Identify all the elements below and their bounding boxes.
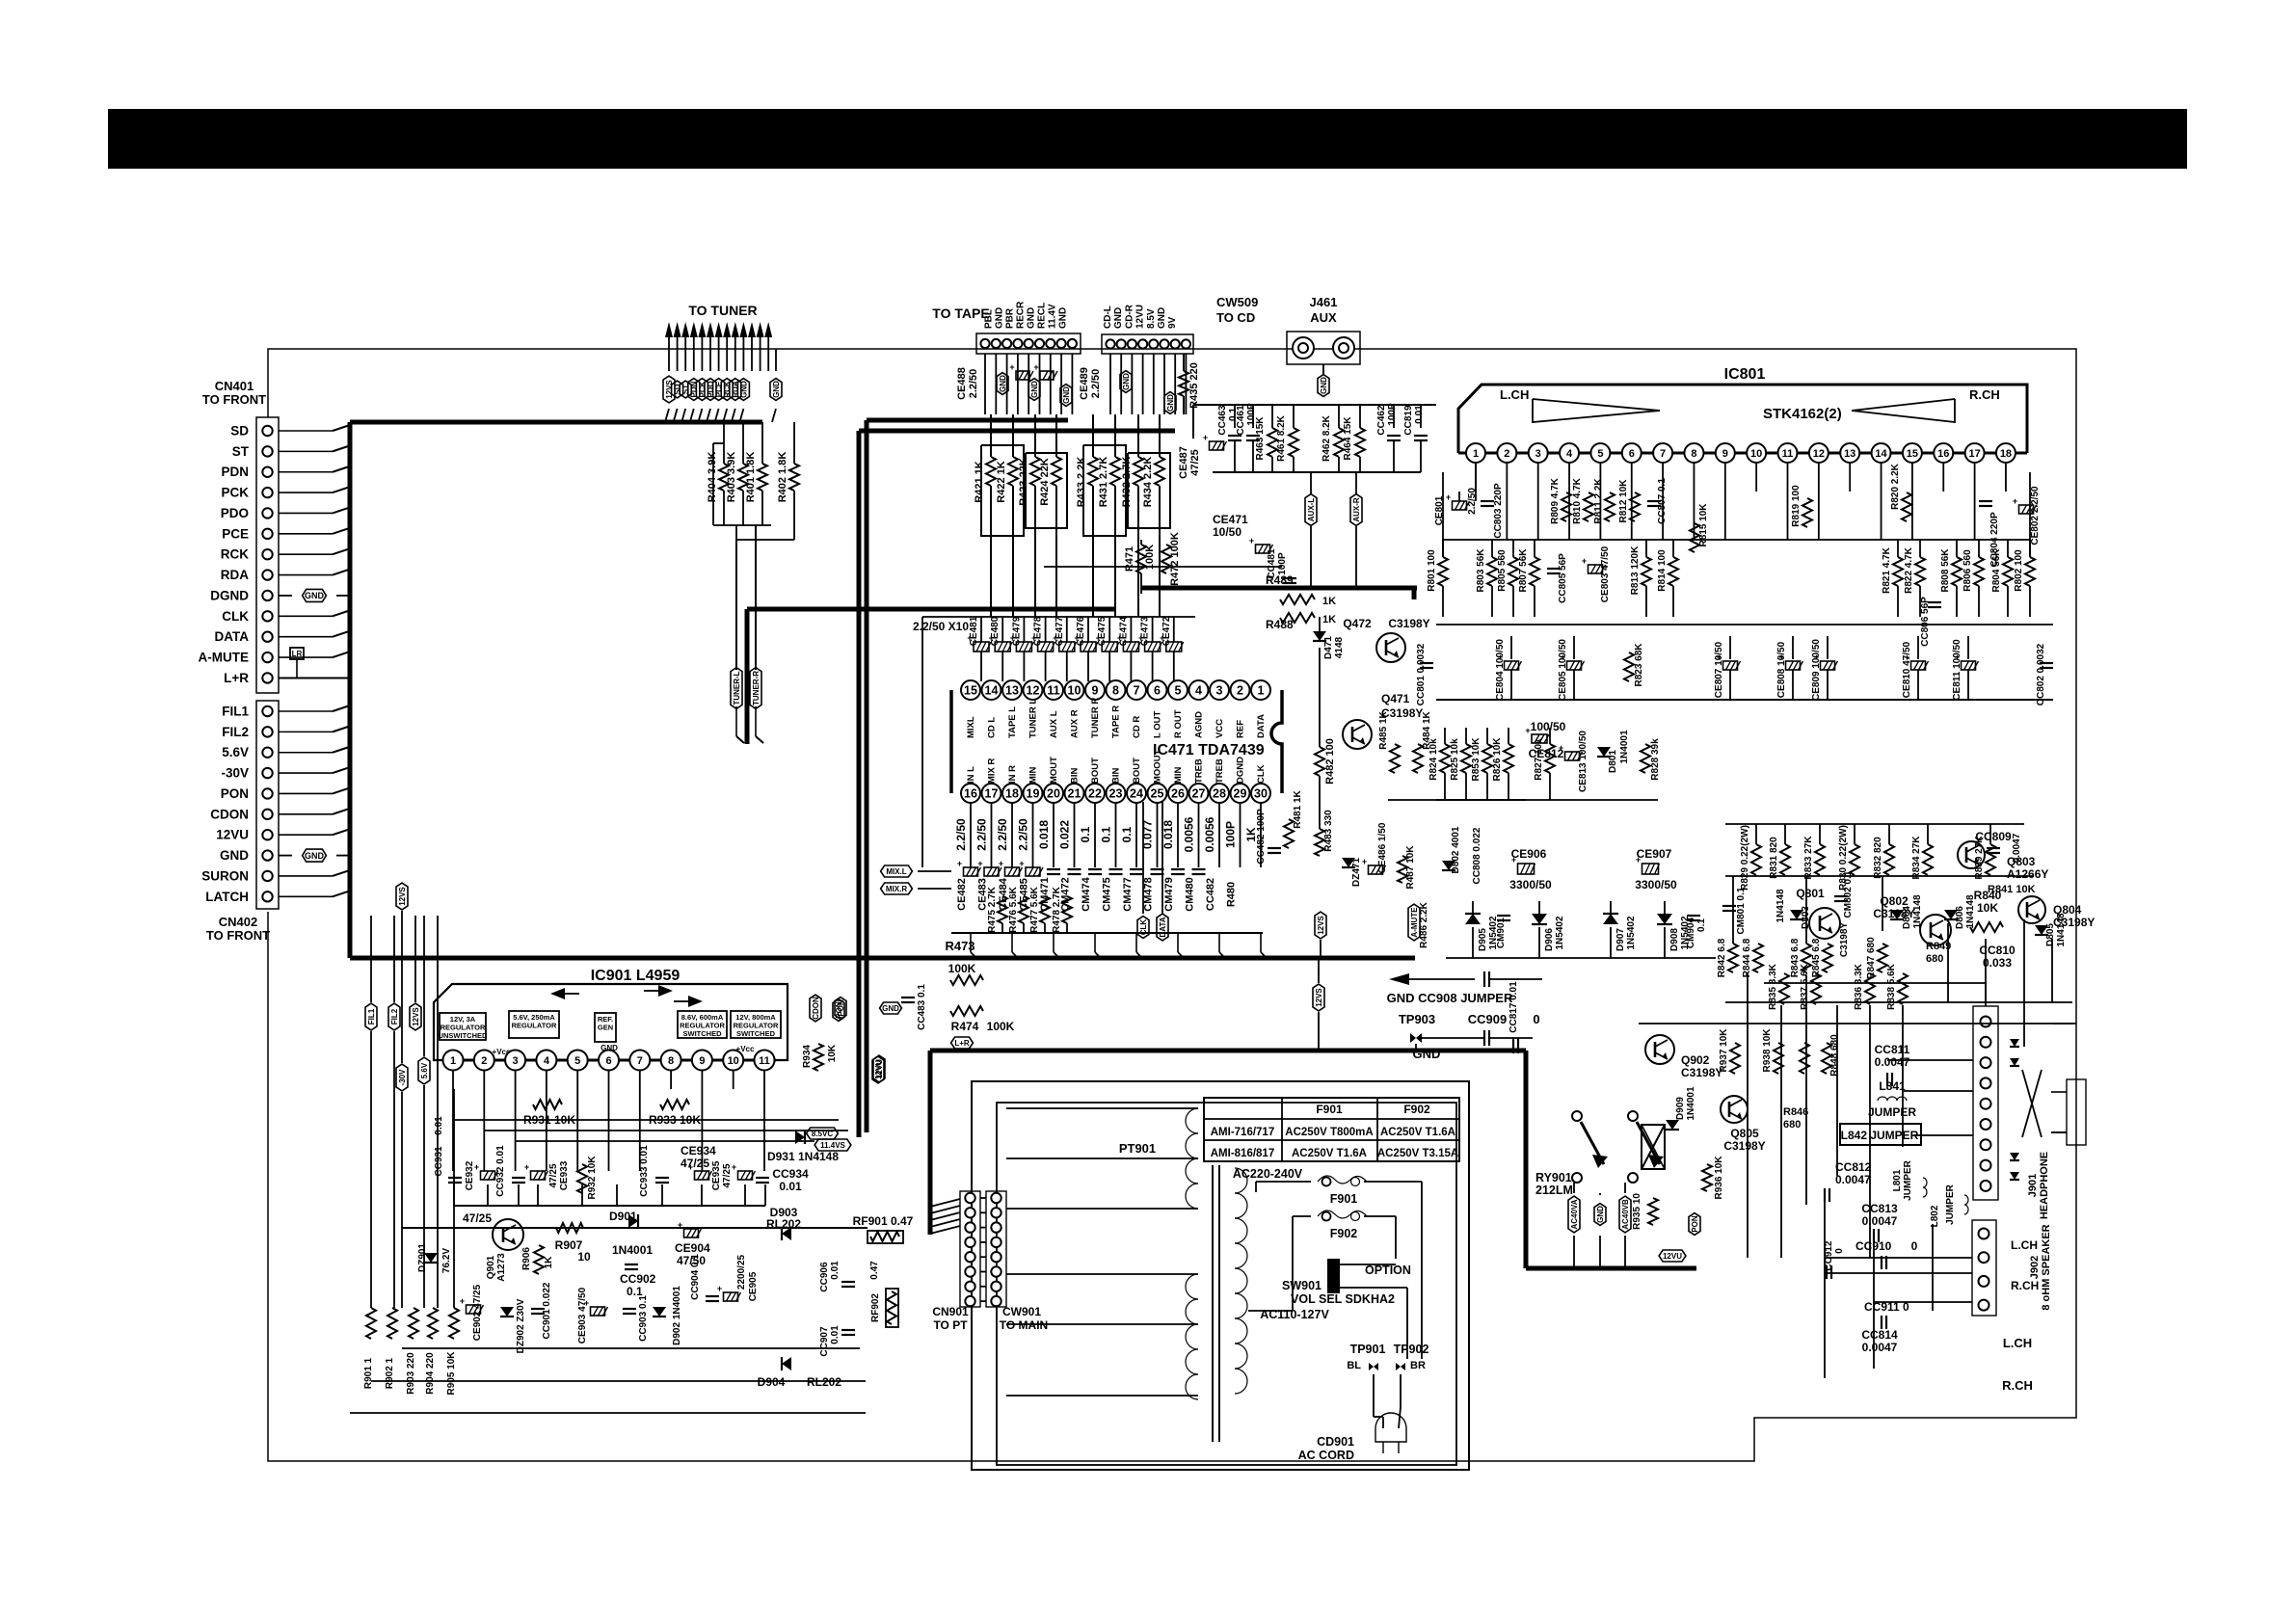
- resistor R825 10k: [1465, 728, 1467, 744]
- pin of CN901: [965, 1222, 974, 1232]
- wire column pin30: [1260, 802, 1262, 867]
- resistor R802 100: [2029, 540, 2031, 557]
- svg-text:FIL2: FIL2: [222, 725, 249, 739]
- resistor R821 4.7K: [1897, 540, 1899, 557]
- resistor R819 100: [1802, 498, 1812, 527]
- svg-text:CE807 10/50: CE807 10/50: [1714, 641, 1724, 698]
- resistor R834 27K: [1927, 824, 1929, 844]
- relay switch blade a: [1572, 1111, 1582, 1121]
- svg-text:A-MUTE: A-MUTE: [1410, 907, 1419, 938]
- svg-text:R831 820: R831 820: [1769, 837, 1779, 879]
- svg-text:GND: GND: [1320, 377, 1328, 394]
- pin of J901: [1981, 1181, 1991, 1191]
- net label AUX-L: [1310, 472, 1312, 493]
- svg-text:CE903 47/50: CE903 47/50: [577, 1287, 588, 1344]
- svg-text:PBR: PBR: [1005, 307, 1016, 329]
- pin 8 of IC901: [661, 1051, 681, 1071]
- resistor R822 4.7K: [1919, 540, 1921, 557]
- resistor R827 10k: [1549, 728, 1551, 744]
- resistor R938 10K: [1774, 1043, 1783, 1074]
- resistor R478 2.7K: [1062, 896, 1072, 923]
- capacitor CM symbol: [1047, 868, 1060, 870]
- svg-text:C3198Y: C3198Y: [1681, 1066, 1722, 1079]
- pin 17 of IC801: [1965, 443, 1985, 463]
- svg-text:R936 10K: R936 10K: [1714, 1156, 1724, 1200]
- svg-text:SWITCHED: SWITCHED: [736, 1029, 776, 1038]
- svg-text:R825 10k: R825 10k: [1450, 738, 1460, 781]
- pin 7 of IC471: [1127, 680, 1146, 700]
- svg-text:AMI-716/717: AMI-716/717: [1211, 1127, 1274, 1138]
- svg-text:CC482 100P: CC482 100P: [1256, 809, 1267, 865]
- resistor R488 1K: [1280, 613, 1315, 623]
- net label DATA: [1161, 802, 1163, 914]
- svg-text:D907: D907: [1615, 928, 1626, 951]
- svg-text:+: +: [524, 1162, 529, 1172]
- svg-text:CC909: CC909: [1468, 1012, 1507, 1026]
- resistor R461 8.2K: [1293, 405, 1295, 428]
- svg-text:+: +: [688, 1162, 693, 1172]
- net label FIL1: [365, 1003, 377, 1030]
- svg-text:10/50: 10/50: [1213, 525, 1241, 539]
- svg-text:R903 220: R903 220: [406, 1352, 416, 1395]
- wire bottom rail c: [350, 1412, 866, 1414]
- net label RCK (to tuner): [721, 379, 733, 401]
- net label MIX.R: [881, 883, 913, 894]
- pin 1 of IC901: [443, 1051, 464, 1071]
- svg-text:100P: 100P: [1277, 552, 1288, 575]
- pin of cd connector: [1182, 339, 1190, 348]
- net label 12VU (right): [872, 1056, 884, 1083]
- net label GND (tuner right): [775, 349, 777, 371]
- svg-text:R905 10K: R905 10K: [446, 1351, 457, 1396]
- svg-text:R807 56K: R807 56K: [1518, 548, 1529, 593]
- svg-text:AMI-816/817: AMI-816/817: [1211, 1148, 1274, 1159]
- svg-text:CE812: CE812: [1529, 747, 1564, 760]
- wire column pin16: [970, 802, 972, 867]
- svg-text:D909: D909: [1675, 1097, 1686, 1120]
- op-amp triangle R.CH: [1852, 399, 1955, 422]
- svg-text:0.0056: 0.0056: [1183, 816, 1196, 852]
- svg-text:GND: GND: [220, 848, 249, 863]
- svg-text:IC901 L4959: IC901 L4959: [591, 968, 681, 984]
- net label 8.5VC: [807, 1128, 839, 1139]
- svg-text:R487 10K: R487 10K: [1405, 845, 1416, 890]
- svg-text:CC811: CC811: [1875, 1043, 1910, 1056]
- wire column pin23: [1115, 802, 1117, 867]
- pin 3 of IC901: [505, 1051, 525, 1071]
- svg-text:CLK: CLK: [1256, 764, 1267, 784]
- wire IC801 left col: [1442, 472, 1444, 557]
- svg-text:R489: R489: [1266, 573, 1294, 587]
- resistor R403 3.9K: [742, 422, 744, 464]
- svg-text:C3198Y: C3198Y: [1839, 922, 1850, 957]
- svg-text:PDO: PDO: [221, 506, 249, 520]
- wire RDA to bus: [279, 574, 333, 576]
- svg-text:R848 680: R848 680: [1829, 1034, 1840, 1077]
- svg-text:1N5402: 1N5402: [1626, 916, 1637, 949]
- wire mid rail: [1044, 566, 1282, 568]
- resistor R830 0.22(2W): [1854, 824, 1855, 844]
- svg-text:1K: 1K: [1322, 596, 1336, 607]
- pin of J901: [1981, 1017, 1991, 1027]
- svg-text:IC801: IC801: [1724, 366, 1766, 383]
- net label PDO (to tuner): [705, 379, 716, 401]
- svg-text:CM479: CM479: [1163, 877, 1175, 911]
- svg-text:OPTION: OPTION: [1365, 1264, 1411, 1277]
- svg-text:R847 680: R847 680: [1866, 937, 1877, 979]
- pin 16 of IC471: [961, 784, 980, 803]
- svg-text:R464 15K: R464 15K: [1343, 416, 1353, 461]
- diode D805 1N4148: [2035, 925, 2048, 935]
- wire column pin24: [1135, 802, 1137, 867]
- pin of CW901: [991, 1208, 1001, 1217]
- svg-text:R475 2.7K: R475 2.7K: [987, 886, 998, 933]
- wire PON to bus: [279, 792, 333, 794]
- pin 3 of IC801: [1529, 443, 1548, 463]
- svg-text:AC250V T800mA: AC250V T800mA: [1285, 1127, 1373, 1138]
- wire DATA to bus: [279, 636, 333, 638]
- pin 17 of IC471: [982, 784, 1001, 803]
- svg-text:11: 11: [759, 1055, 770, 1067]
- resistor R833 27K: [1819, 824, 1821, 844]
- svg-text:C3198Y: C3198Y: [1388, 617, 1429, 630]
- bus wire horizontal upper a: [867, 418, 1068, 423]
- svg-text:R814 100: R814 100: [1657, 549, 1668, 592]
- svg-text:1: 1: [1473, 448, 1479, 460]
- capacitor CC463 0.1: [1234, 405, 1236, 428]
- table fuse ratings: [1204, 1098, 1459, 1161]
- wire CDON to bus: [279, 813, 333, 815]
- wire A-MUTE to bus: [279, 656, 333, 658]
- resistor R937 10K: [1730, 1043, 1740, 1074]
- svg-text:8: 8: [1112, 684, 1119, 698]
- pin of CW901: [991, 1296, 1001, 1306]
- svg-text:0.018: 0.018: [1037, 820, 1051, 849]
- pin 26 of IC471: [1168, 784, 1188, 803]
- bus wire vertical main: [348, 422, 353, 958]
- svg-text:8.5V: 8.5V: [1146, 308, 1157, 329]
- svg-text:Q804: Q804: [2053, 903, 2082, 917]
- svg-text:Q901: Q901: [486, 1255, 496, 1279]
- wire column pin29: [1240, 802, 1241, 867]
- svg-text:+: +: [1249, 536, 1254, 545]
- svg-text:+: +: [1009, 362, 1014, 372]
- wire 5.6V to bus: [279, 752, 333, 754]
- svg-text:CE810 47/50: CE810 47/50: [1902, 641, 1912, 698]
- svg-text:CC904 0.1: CC904 0.1: [690, 1254, 701, 1300]
- svg-text:TO FRONT: TO FRONT: [206, 928, 270, 943]
- bus wire horizontal mid b: [747, 607, 1115, 612]
- svg-text:TAPE L: TAPE L: [1007, 706, 1018, 738]
- svg-text:F901: F901: [1316, 1103, 1343, 1116]
- svg-text:16: 16: [964, 787, 977, 801]
- svg-text:J901: J901: [2027, 1174, 2039, 1197]
- svg-text:D908: D908: [1669, 928, 1680, 951]
- svg-text:CE808 10/50: CE808 10/50: [1776, 641, 1787, 698]
- svg-text:47/25: 47/25: [548, 1163, 559, 1187]
- svg-text:100P: 100P: [1387, 403, 1398, 426]
- pin RCK of CN401: [262, 549, 272, 559]
- pin 2 of IC471: [1231, 680, 1250, 700]
- svg-text:+: +: [1636, 855, 1641, 865]
- wire bottom rail IC471: [951, 932, 1263, 934]
- capacitor CC803 220P: [1481, 500, 1494, 502]
- svg-text:9: 9: [1092, 684, 1099, 698]
- svg-text:+: +: [1203, 433, 1208, 442]
- svg-text:R813 120K: R813 120K: [1630, 545, 1641, 595]
- svg-text:TUNER L: TUNER L: [1028, 699, 1039, 738]
- svg-text:Q471: Q471: [1381, 692, 1410, 705]
- svg-text:CC814: CC814: [1861, 1328, 1898, 1342]
- svg-text:0.1: 0.1: [1120, 826, 1134, 842]
- resistor R839 27K: [1989, 824, 1991, 844]
- svg-text:JUMPER: JUMPER: [1868, 1105, 1916, 1119]
- to-tuner arrow: [764, 322, 772, 337]
- transformer PT901 primary winding: [1186, 1108, 1198, 1133]
- svg-text:8 oHM SPEAKER: 8 oHM SPEAKER: [2041, 1224, 2052, 1310]
- pin A-MUTE of CN401: [262, 652, 272, 662]
- svg-text:CE935: CE935: [711, 1160, 722, 1190]
- svg-text:+: +: [957, 859, 962, 868]
- svg-text:D804: D804: [1902, 906, 1912, 929]
- svg-text:7: 7: [1134, 684, 1140, 698]
- pin of CW901: [991, 1266, 1001, 1276]
- svg-text:R.CH: R.CH: [2002, 1378, 2033, 1393]
- wire PCE to bus: [279, 533, 333, 535]
- svg-text:CE809 100/50: CE809 100/50: [1811, 639, 1822, 701]
- svg-text:3300/50: 3300/50: [1635, 878, 1677, 891]
- svg-text:CD R: CD R: [1132, 716, 1142, 738]
- svg-text:D904: D904: [758, 1375, 786, 1389]
- title banner bar: [108, 109, 2187, 169]
- svg-text:0.01: 0.01: [830, 1325, 841, 1344]
- resistor R842 6.8: [1728, 944, 1738, 972]
- pin of cd connector: [1171, 339, 1180, 348]
- svg-text:0.01: 0.01: [830, 1261, 841, 1280]
- resistor R845 6.8: [1823, 944, 1832, 972]
- pin 4 of IC801: [1560, 443, 1579, 463]
- svg-text:CN901: CN901: [932, 1305, 969, 1318]
- svg-text:CC901 0.022: CC901 0.022: [542, 1282, 552, 1339]
- connector CW901 TO MAIN: [986, 1191, 1006, 1307]
- svg-text:1N4001: 1N4001: [1686, 1086, 1696, 1120]
- fuse F902: [1293, 1215, 1311, 1217]
- to-tuner arrow: [748, 322, 756, 337]
- resistor R826 10K: [1508, 728, 1509, 744]
- wire column pin20: [1053, 802, 1055, 867]
- svg-text:8: 8: [1691, 448, 1696, 460]
- transistor Q804 C3198Y: [2018, 896, 2045, 923]
- svg-text:CC801 0.0032: CC801 0.0032: [1416, 643, 1427, 705]
- pin 3 of IC471: [1210, 680, 1229, 700]
- pin 7 of IC801: [1653, 443, 1672, 463]
- svg-text:AC250V T1.6A: AC250V T1.6A: [1380, 1127, 1455, 1138]
- svg-text:CC463: CC463: [1217, 405, 1228, 436]
- pin 2 of IC901: [474, 1051, 494, 1071]
- svg-text:CC819: CC819: [1403, 405, 1414, 436]
- capacitor CE904 47/50: [684, 1229, 699, 1237]
- capacitor CC934 0.01: [756, 1177, 769, 1179]
- svg-text:2.2/50: 2.2/50: [1017, 818, 1030, 851]
- resistor R903 220: [409, 1308, 418, 1339]
- svg-text:CC808 0.022: CC808 0.022: [1472, 827, 1482, 884]
- connector J902 8 OHM SPEAKER: [1972, 1220, 1996, 1316]
- resistor R463 15K: [1271, 405, 1273, 428]
- capacitor CM symbol: [1171, 868, 1185, 870]
- svg-text:CC809: CC809: [1975, 830, 2012, 843]
- svg-text:TREB: TREB: [1215, 758, 1225, 784]
- diode D803 1N4148: [1790, 910, 1803, 919]
- svg-text:CE471: CE471: [1213, 513, 1248, 526]
- svg-text:Q902: Q902: [1681, 1053, 1710, 1067]
- svg-text:R474: R474: [951, 1020, 979, 1033]
- capacitor CE482 symbol: [964, 867, 978, 876]
- svg-text:12VS: 12VS: [412, 1007, 420, 1026]
- svg-text:GND: GND: [882, 1004, 899, 1013]
- transistor Q805 C3198Y: [1721, 1096, 1748, 1123]
- svg-text:680: 680: [1783, 1119, 1801, 1131]
- wire CLK to bus: [279, 615, 333, 617]
- diode DZ471: [1342, 858, 1355, 867]
- capacitor CC806 56P: [1928, 601, 1941, 603]
- resistor R809 4.7K: [1562, 492, 1571, 521]
- capacitor CM symbol: [1130, 868, 1143, 870]
- svg-text:A1266Y: A1266Y: [2007, 867, 2048, 881]
- capacitor CC807 0.1: [1647, 500, 1661, 502]
- wire IC801 rail2: [1436, 624, 2053, 625]
- svg-text:CC810: CC810: [1979, 944, 2016, 957]
- svg-text:RECL: RECL: [1037, 303, 1048, 329]
- svg-text:L842 JUMPER: L842 JUMPER: [1841, 1129, 1919, 1142]
- pin of CN901: [965, 1193, 974, 1203]
- svg-text:L841: L841: [1879, 1079, 1906, 1093]
- svg-text:R841 10K: R841 10K: [1988, 884, 2036, 895]
- svg-text:R488: R488: [1266, 618, 1294, 631]
- svg-text:R476 5.6K: R476 5.6K: [1008, 886, 1019, 933]
- svg-text:7: 7: [637, 1055, 643, 1067]
- net label GND (CN402): [303, 849, 327, 862]
- svg-text:TO PT: TO PT: [933, 1318, 968, 1332]
- svg-text:CD-R: CD-R: [1124, 304, 1135, 329]
- svg-text:0: 0: [1533, 1012, 1539, 1026]
- svg-text:0.033: 0.033: [1983, 956, 2012, 970]
- wire PCK to bus: [279, 492, 333, 493]
- capacitor CC902 0.1: [625, 1264, 638, 1265]
- svg-text:BOUT: BOUT: [1090, 758, 1101, 784]
- svg-text:SWITCHED: SWITCHED: [683, 1029, 723, 1038]
- svg-text:0.0047: 0.0047: [1835, 1173, 1871, 1186]
- pin 7 of IC901: [629, 1051, 650, 1071]
- wire FIL2 to bus: [279, 731, 333, 732]
- diode D931 1N4148: [795, 1131, 805, 1144]
- svg-text:+: +: [1160, 633, 1164, 643]
- capacitor CE484 symbol: [1005, 867, 1020, 876]
- pin 21 of IC471: [1065, 784, 1084, 803]
- svg-text:CE803 47/50: CE803 47/50: [1600, 545, 1611, 602]
- pin of tape connector: [1035, 339, 1044, 348]
- pin 4 of IC901: [536, 1051, 556, 1071]
- wire column pin28: [1218, 802, 1220, 867]
- svg-text:1N4148: 1N4148: [1965, 894, 1976, 928]
- svg-text:GND: GND: [772, 381, 781, 398]
- svg-text:C3198Y: C3198Y: [2053, 916, 2095, 929]
- svg-text:CC803 220P: CC803 220P: [1493, 483, 1504, 539]
- svg-text:Q472: Q472: [1343, 617, 1372, 630]
- pin 12 of IC801: [1809, 443, 1829, 463]
- headphone jack symbol: [2067, 1079, 2086, 1145]
- svg-text:1N5402: 1N5402: [1555, 916, 1565, 949]
- svg-text:AUX-L: AUX-L: [1307, 498, 1316, 522]
- wire box R423 pair: [1026, 453, 1067, 528]
- pin of cd connector: [1160, 339, 1168, 348]
- resistor R402 1.8K: [793, 422, 795, 464]
- svg-text:R805 560: R805 560: [1497, 549, 1508, 592]
- svg-text:TUNER-L: TUNER-L: [733, 671, 741, 705]
- pin of CW901: [991, 1237, 1001, 1247]
- svg-text:11: 11: [1782, 448, 1794, 460]
- pin 27 of IC471: [1189, 784, 1209, 803]
- svg-text:IN L: IN L: [966, 766, 976, 784]
- to-tuner arrow: [665, 322, 673, 337]
- svg-text:Q805: Q805: [1730, 1127, 1759, 1140]
- svg-text:CE934: CE934: [681, 1144, 716, 1157]
- to-tuner arrow: [739, 322, 747, 337]
- wire PDN to bus: [279, 471, 333, 473]
- pin SURON of CN402: [262, 871, 272, 881]
- wire SD to bus: [279, 430, 333, 432]
- svg-text:CN402: CN402: [219, 915, 257, 929]
- pin of J901: [1981, 1057, 1991, 1068]
- resistor R931 10K: [533, 1100, 562, 1109]
- svg-text:R802 100: R802 100: [2014, 549, 2024, 592]
- pin of CW901: [991, 1282, 1001, 1291]
- svg-text:CC802 0.0032: CC802 0.0032: [2036, 643, 2046, 705]
- wire IC801 bottom rail: [1436, 699, 2053, 701]
- svg-text:4148: 4148: [1334, 636, 1345, 658]
- wire right frame drops: [2053, 1023, 2076, 1024]
- svg-text:RCK: RCK: [221, 547, 249, 562]
- svg-text:JUMPER: JUMPER: [1945, 1184, 1956, 1224]
- pin of J902: [1979, 1300, 1989, 1311]
- transistor Q902 C3198Y: [1645, 1035, 1674, 1064]
- svg-text:26: 26: [1171, 787, 1185, 801]
- pin 13 of IC471: [1002, 680, 1022, 700]
- resistor R487 10K: [1398, 856, 1407, 883]
- wire columns to bus: [970, 933, 972, 952]
- wire amp cluster rails: [1725, 823, 2024, 825]
- svg-text:18: 18: [2000, 448, 2012, 460]
- op-amp IC471 TDA7439 body: [949, 690, 953, 793]
- resistor R847 680: [1878, 944, 1887, 972]
- to-tuner arrow: [723, 322, 731, 337]
- pin of CN901: [965, 1282, 974, 1291]
- svg-text:RDA: RDA: [221, 568, 249, 582]
- svg-text:5: 5: [1175, 684, 1182, 698]
- pin PON of CN402: [262, 788, 272, 798]
- bus wire IC901 pins: [443, 1059, 776, 1062]
- svg-text:CN401: CN401: [215, 379, 254, 393]
- wire IC801 right col: [2029, 472, 2031, 557]
- svg-text:2.2/50 X10: 2.2/50 X10: [913, 620, 969, 633]
- svg-text:DZ901: DZ901: [417, 1243, 428, 1272]
- svg-text:SURON: SURON: [201, 868, 249, 883]
- pin of CW901: [991, 1252, 1001, 1262]
- capacitor CC819 0.01: [1420, 405, 1422, 428]
- capacitor CE811 100/50: [1967, 636, 1969, 659]
- svg-text:MIX R: MIX R: [987, 758, 998, 784]
- svg-text:12VS: 12VS: [398, 887, 407, 906]
- diode D905 1N5402: [1472, 901, 1474, 914]
